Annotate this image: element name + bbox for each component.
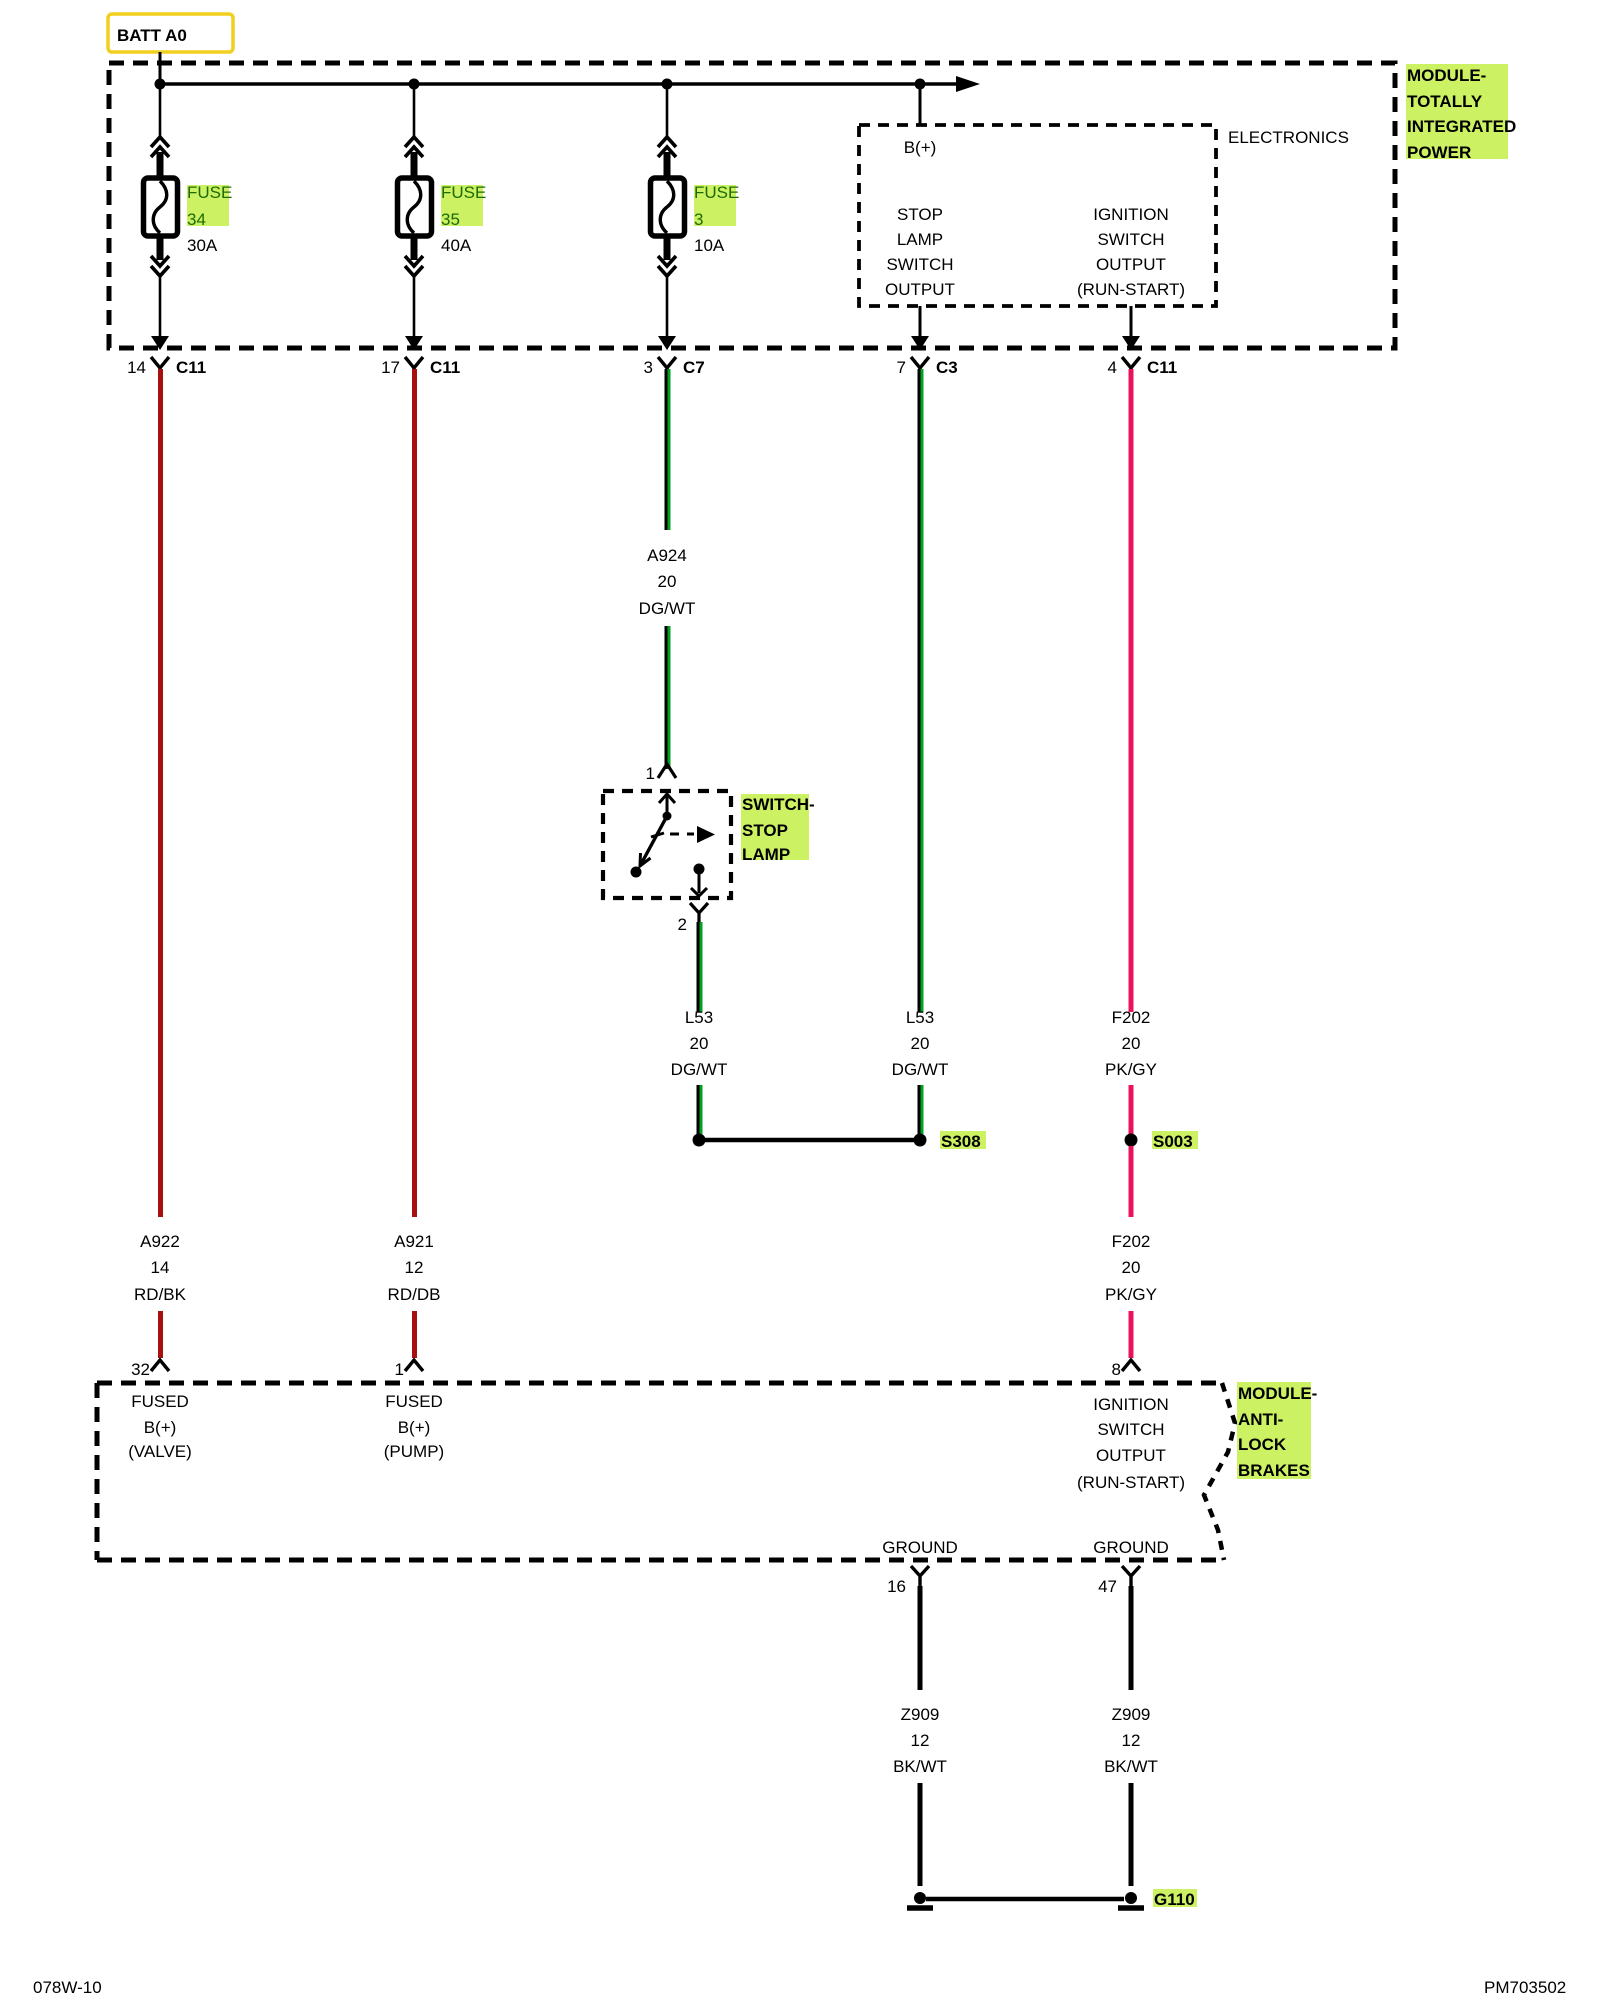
pin 8 of ABS module xyxy=(1112,1360,1140,1379)
svg-text:20: 20 xyxy=(658,572,677,591)
electronics inner box (dashed) xyxy=(859,125,1216,306)
wire L53 20 DG/WT right branch xyxy=(919,369,921,1012)
wire joining grounds xyxy=(926,1897,1124,1902)
wire F202 below splice xyxy=(1129,1146,1134,1217)
svg-text:12: 12 xyxy=(405,1258,424,1277)
svg-text:IGNITION: IGNITION xyxy=(1093,1395,1169,1414)
wire ignition switch output to connector xyxy=(1122,306,1140,350)
svg-text:(PUMP): (PUMP) xyxy=(384,1442,444,1461)
pin 7 connector C3 xyxy=(897,357,958,377)
wire L53 20 DG/WT from switch xyxy=(698,922,700,1012)
svg-text:MODULE-: MODULE- xyxy=(1407,66,1486,85)
svg-text:078W-10: 078W-10 xyxy=(33,1978,102,1997)
wire B(+) bus with arrow xyxy=(160,76,980,92)
wire A922 lower segment xyxy=(158,1311,163,1358)
svg-text:LAMP: LAMP xyxy=(897,230,943,249)
node IGNITION SWITCH OUTPUT (RUN-START) in ABS module xyxy=(1077,1395,1185,1492)
svg-text:C3: C3 xyxy=(936,358,958,377)
svg-text:STOP: STOP xyxy=(897,205,943,224)
svg-text:GROUND: GROUND xyxy=(1093,1538,1169,1557)
wire F202 label upper xyxy=(1105,1008,1157,1079)
node STOP LAMP SWITCH OUTPUT xyxy=(885,205,955,299)
svg-text:1: 1 xyxy=(395,1360,404,1379)
module box: TOTALLY INTEGRATED POWER MODULE (dashed) xyxy=(109,63,1395,348)
node junction dot 3 xyxy=(662,79,673,90)
svg-text:BK/WT: BK/WT xyxy=(893,1757,947,1776)
svg-text:LOCK: LOCK xyxy=(1238,1435,1287,1454)
svg-text:F202: F202 xyxy=(1112,1008,1151,1027)
svg-text:BRAKES: BRAKES xyxy=(1238,1461,1310,1480)
svg-text:47: 47 xyxy=(1098,1577,1117,1596)
svg-text:OUTPUT: OUTPUT xyxy=(1096,1446,1166,1465)
svg-text:BK/WT: BK/WT xyxy=(1104,1757,1158,1776)
svg-text:A922: A922 xyxy=(140,1232,180,1251)
pin 3 connector C7 xyxy=(644,357,705,377)
svg-text:OUTPUT: OUTPUT xyxy=(885,280,955,299)
svg-text:14: 14 xyxy=(127,358,146,377)
node FUSED B(+) (VALVE) xyxy=(128,1392,192,1461)
ground symbol left xyxy=(907,1892,933,1908)
svg-text:ELECTRONICS: ELECTRONICS xyxy=(1228,128,1349,147)
pin 47 connector xyxy=(1098,1566,1140,1596)
module label MODULE-ANTI-LOCK BRAKES xyxy=(1237,1382,1317,1480)
svg-text:PK/GY: PK/GY xyxy=(1105,1285,1157,1304)
svg-text:1: 1 xyxy=(646,764,655,783)
pin 1 of ABS module xyxy=(395,1360,423,1379)
wire Z909 left label xyxy=(893,1705,947,1776)
svg-text:C11: C11 xyxy=(1147,358,1177,377)
pin 4 connector C11 xyxy=(1108,357,1178,377)
svg-text:B(+): B(+) xyxy=(144,1418,177,1437)
svg-text:C7: C7 xyxy=(683,358,705,377)
wire Z909 right lower segment xyxy=(1129,1783,1134,1886)
switch label SWITCH-STOP LAMP xyxy=(741,794,815,864)
wire L53 label left xyxy=(671,1008,728,1079)
svg-text:2: 2 xyxy=(678,915,687,934)
svg-text:Z909: Z909 xyxy=(1112,1705,1151,1724)
wire Z909 left lower segment xyxy=(918,1783,923,1886)
svg-text:Z909: Z909 xyxy=(901,1705,940,1724)
wire A922 14 RD/BK upper segment xyxy=(158,369,163,1217)
svg-text:L53: L53 xyxy=(685,1008,713,1027)
pin 14 connector C11 xyxy=(127,357,206,377)
svg-text:FUSED: FUSED xyxy=(131,1392,189,1411)
node IGNITION SWITCH OUTPUT (RUN-START) xyxy=(1077,205,1185,299)
svg-text:OUTPUT: OUTPUT xyxy=(1096,255,1166,274)
svg-text:TOTALLY: TOTALLY xyxy=(1407,92,1483,111)
svg-text:32: 32 xyxy=(131,1360,150,1379)
svg-text:40A: 40A xyxy=(441,236,472,255)
svg-text:35: 35 xyxy=(441,210,460,229)
svg-text:12: 12 xyxy=(1122,1731,1141,1750)
module label MODULE-TOTALLY INTEGRATED POWER xyxy=(1406,64,1516,162)
svg-text:3: 3 xyxy=(644,358,653,377)
svg-text:G110: G110 xyxy=(1154,1890,1195,1909)
fuse F35 column wire and symbol xyxy=(398,84,432,350)
svg-text:12: 12 xyxy=(911,1731,930,1750)
svg-text:SWITCH-: SWITCH- xyxy=(742,795,815,814)
svg-text:RD/DB: RD/DB xyxy=(388,1285,441,1304)
svg-text:B(+): B(+) xyxy=(904,138,937,157)
svg-text:ANTI-: ANTI- xyxy=(1238,1410,1283,1429)
pin 1 of stop lamp switch xyxy=(646,764,676,783)
svg-text:20: 20 xyxy=(690,1034,709,1053)
svg-text:(VALVE): (VALVE) xyxy=(128,1442,192,1461)
wire A922 label xyxy=(134,1232,187,1304)
fuse F3 column wire and symbol xyxy=(651,84,685,350)
svg-text:LAMP: LAMP xyxy=(742,845,790,864)
svg-text:PM703502: PM703502 xyxy=(1484,1978,1566,1997)
svg-text:(RUN-START): (RUN-START) xyxy=(1077,280,1185,299)
svg-text:C11: C11 xyxy=(430,358,460,377)
svg-text:SWITCH: SWITCH xyxy=(1097,230,1164,249)
pin 32 of ABS module xyxy=(131,1360,169,1379)
splice S003 xyxy=(1125,1131,1199,1151)
wire F202 label lower xyxy=(1105,1232,1157,1304)
pin 17 connector C11 xyxy=(381,357,460,377)
svg-text:B(+): B(+) xyxy=(398,1418,431,1437)
wire F202 lower segment xyxy=(1129,1311,1134,1358)
svg-text:FUSE: FUSE xyxy=(694,183,739,202)
svg-text:DG/WT: DG/WT xyxy=(639,599,696,618)
node junction dot 4 xyxy=(915,79,926,90)
node BATT A0 label box xyxy=(108,14,233,52)
svg-text:S003: S003 xyxy=(1153,1132,1193,1151)
svg-text:20: 20 xyxy=(1122,1034,1141,1053)
svg-text:DG/WT: DG/WT xyxy=(892,1060,949,1079)
wire Z909 12 BK/WT left upper segment xyxy=(918,1586,923,1690)
svg-text:F202: F202 xyxy=(1112,1232,1151,1251)
svg-text:17: 17 xyxy=(381,358,400,377)
wire L53 label right xyxy=(892,1008,949,1079)
wire from BATT A0 into module xyxy=(159,52,162,84)
svg-text:3: 3 xyxy=(694,210,703,229)
svg-text:L53: L53 xyxy=(906,1008,934,1027)
ground G110 xyxy=(1118,1889,1197,1909)
svg-text:A921: A921 xyxy=(394,1232,434,1251)
fuse F3 label FUSE 3 10A xyxy=(694,183,739,255)
svg-text:(RUN-START): (RUN-START) xyxy=(1077,1473,1185,1492)
svg-text:SWITCH: SWITCH xyxy=(886,255,953,274)
wire F202 middle segment xyxy=(1129,1085,1134,1134)
fuse F34 column wire and symbol xyxy=(144,84,178,350)
wire A924 label xyxy=(639,546,696,618)
wire A924 lower segment to switch xyxy=(666,626,668,769)
svg-text:34: 34 xyxy=(187,210,206,229)
wire A921 12 RD/DB upper segment xyxy=(412,369,417,1217)
svg-text:16: 16 xyxy=(887,1577,906,1596)
wire Z909 right label xyxy=(1104,1705,1158,1776)
svg-text:BATT A0: BATT A0 xyxy=(117,26,187,45)
svg-text:PK/GY: PK/GY xyxy=(1105,1060,1157,1079)
svg-text:20: 20 xyxy=(1122,1258,1141,1277)
svg-text:FUSE: FUSE xyxy=(187,183,232,202)
svg-text:FUSED: FUSED xyxy=(385,1392,443,1411)
svg-text:14: 14 xyxy=(151,1258,170,1277)
svg-text:DG/WT: DG/WT xyxy=(671,1060,728,1079)
svg-text:INTEGRATED: INTEGRATED xyxy=(1407,117,1516,136)
switch S1 stop lamp switch box (dashed) xyxy=(603,791,731,898)
wire stop lamp switch output to connector xyxy=(911,306,929,350)
svg-text:SWITCH: SWITCH xyxy=(1097,1420,1164,1439)
svg-text:STOP: STOP xyxy=(742,821,788,840)
module box: ANTI-LOCK BRAKES MODULE (dashed with torn right edge) xyxy=(97,1383,1235,1560)
wire A921 label xyxy=(388,1232,441,1304)
svg-text:7: 7 xyxy=(897,358,906,377)
svg-text:C11: C11 xyxy=(176,358,206,377)
pin 2 of stop lamp switch xyxy=(678,903,708,934)
node junction dot 1 xyxy=(155,79,166,90)
svg-text:30A: 30A xyxy=(187,236,218,255)
wire A924 20 DG/WT upper segment xyxy=(666,369,668,530)
svg-text:10A: 10A xyxy=(694,236,725,255)
svg-text:20: 20 xyxy=(911,1034,930,1053)
fuse F34 label FUSE 34 30A xyxy=(187,183,232,255)
wire Z909 12 BK/WT right upper segment xyxy=(1129,1586,1134,1690)
pin 16 connector xyxy=(887,1566,929,1596)
svg-text:GROUND: GROUND xyxy=(882,1538,958,1557)
svg-text:MODULE-: MODULE- xyxy=(1238,1384,1317,1403)
wire F202 20 PK/GY upper segment xyxy=(1129,369,1134,1012)
svg-text:RD/BK: RD/BK xyxy=(134,1285,187,1304)
fuse F35 label FUSE 35 40A xyxy=(441,183,486,255)
svg-text:S308: S308 xyxy=(941,1132,981,1151)
wire L53 right lower segment xyxy=(919,1085,921,1134)
svg-text:A924: A924 xyxy=(647,546,687,565)
svg-text:FUSE: FUSE xyxy=(441,183,486,202)
wire L53 left lower segment xyxy=(698,1085,700,1134)
svg-text:IGNITION: IGNITION xyxy=(1093,205,1169,224)
wire bus tap to B(+) of electronics xyxy=(919,84,922,125)
svg-text:8: 8 xyxy=(1112,1360,1121,1379)
node junction dot 2 xyxy=(409,79,420,90)
wire A921 lower segment xyxy=(412,1311,417,1358)
splice S308 xyxy=(693,1131,987,1151)
switch S1 internals xyxy=(631,794,716,896)
node FUSED B(+) (PUMP) xyxy=(384,1392,444,1461)
svg-text:4: 4 xyxy=(1108,358,1117,377)
svg-text:POWER: POWER xyxy=(1407,143,1471,162)
